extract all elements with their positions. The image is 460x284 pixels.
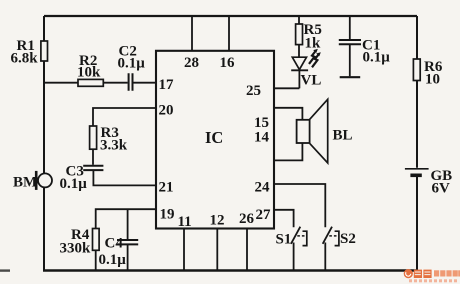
LED VL [291, 57, 308, 88]
svg-text:S2: S2 [340, 231, 356, 247]
wire LED VL to IC pin 25 [274, 87, 299, 89]
wire left rail [43, 16, 45, 271]
resistor R6 [413, 59, 420, 81]
svg-text:6V: 6V [432, 181, 451, 197]
wire IC pin 20 to R3 branch [93, 108, 156, 126]
svg-text:19: 19 [160, 206, 175, 222]
svg-text:0.1μ: 0.1μ [363, 50, 391, 66]
battery GB [405, 169, 429, 176]
svg-text:VL: VL [301, 73, 322, 89]
svg-text:S1: S1 [276, 232, 292, 248]
wire R2 to C2 [103, 82, 127, 84]
IC U1 body [156, 51, 274, 229]
svg-text:3.3k: 3.3k [100, 138, 128, 154]
wire IC pin 12 to bottom rail [216, 229, 218, 271]
wire IC pin 19 branch [96, 209, 156, 228]
svg-text:IC: IC [205, 128, 223, 147]
svg-text:330k: 330k [60, 241, 92, 257]
switch S1 [291, 227, 307, 271]
resistor R5 [296, 16, 303, 57]
wire IC pin 16 to top rail [228, 16, 230, 51]
wire right rail [416, 16, 418, 271]
wire IC pin 28 to top rail [191, 16, 193, 51]
wire C3 to IC pin 21 [93, 171, 156, 185]
resistor R2 [78, 79, 103, 86]
svg-text:10: 10 [425, 72, 440, 88]
svg-text:0.1μ: 0.1μ [99, 252, 127, 268]
svg-text:0.1μ: 0.1μ [118, 56, 146, 72]
svg-text:10k: 10k [77, 65, 101, 81]
scan artifact bottom-left [0, 269, 10, 271]
svg-text:BL: BL [333, 128, 353, 144]
svg-text:20: 20 [159, 103, 174, 119]
wire R4 to bottom rail [95, 250, 97, 270]
svg-text:BM: BM [13, 175, 37, 191]
speaker BL [297, 99, 328, 163]
wire IC pin 24 to switch S2 [274, 184, 325, 227]
svg-text:14: 14 [254, 130, 270, 146]
wire R3 to C3 [92, 149, 94, 165]
capacitor C2 [129, 73, 133, 91]
switch S2 [323, 227, 339, 271]
wire IC pin 27 to switch S1 [274, 210, 294, 228]
wire IC pin 26 to bottom rail [246, 229, 248, 271]
resistor R1 [41, 41, 48, 61]
wire speaker to IC pin 14 [274, 143, 302, 160]
svg-text:6.8k: 6.8k [11, 51, 39, 67]
svg-text:1k: 1k [305, 36, 322, 52]
wire IC pin 15 to speaker [274, 108, 302, 120]
svg-text:0.1μ: 0.1μ [60, 176, 88, 192]
svg-text:16: 16 [220, 55, 236, 71]
svg-text:26: 26 [239, 211, 255, 227]
svg-text:25: 25 [246, 83, 261, 99]
svg-text:17: 17 [159, 77, 175, 93]
wire top rail [44, 15, 417, 17]
LED VL light arrows [309, 49, 321, 67]
resistor R4 [93, 229, 100, 251]
svg-text:21: 21 [159, 180, 174, 196]
wire C4 top lead [127, 209, 129, 239]
svg-text:C4: C4 [105, 236, 124, 252]
microphone BM [36, 171, 52, 190]
svg-text:11: 11 [178, 214, 192, 230]
wire C2 to IC pin 17 [134, 82, 157, 84]
wire node R1/R2/BM junction to R2 [43, 82, 78, 84]
wire C4 to bottom rail [127, 245, 129, 271]
svg-text:12: 12 [210, 213, 225, 229]
capacitor C1 [339, 16, 361, 77]
resistor R3 [90, 126, 97, 149]
capacitor C4 [117, 240, 138, 244]
watermark logo [404, 269, 460, 282]
wire bottom rail [43, 269, 417, 272]
wire IC pin 11 to bottom rail [183, 229, 185, 271]
svg-text:28: 28 [184, 55, 199, 71]
svg-text:24: 24 [255, 180, 271, 196]
capacitor C3 [83, 166, 103, 170]
svg-text:27: 27 [256, 207, 272, 223]
